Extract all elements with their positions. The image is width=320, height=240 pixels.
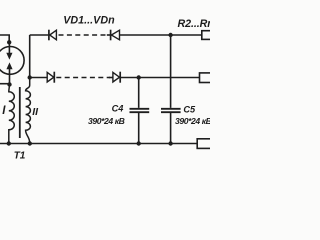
node winding I bottom (7, 141, 11, 145)
capacitor C4 leads (138, 78, 140, 144)
wire (107, 34, 111, 36)
wire input lower-left (0, 83, 10, 85)
resistor Rn (bottom, clipped) (197, 139, 211, 149)
svg-text:390*24 кВ: 390*24 кВ (175, 116, 210, 126)
arrow down (upper electrode) (8, 42, 10, 53)
node spark-gap top (7, 40, 11, 44)
transformer core (19, 87, 21, 138)
resistor R2 (top, clipped) (202, 31, 212, 40)
wire input top-left (0, 35, 9, 42)
diode VD2 (row2, anode left) (47, 72, 54, 82)
svg-text:R2...Rn: R2...Rn (178, 18, 211, 30)
arrow up (lower electrode) (9, 69, 11, 85)
wire dashed top row (59, 34, 108, 36)
svg-text:390*24 кВ: 390*24 кВ (88, 116, 125, 126)
node C5 bottom (168, 141, 172, 145)
wire bottom rail (0, 143, 197, 145)
wire top row left (30, 34, 49, 36)
spark gap arrester (circle) (0, 47, 24, 75)
capacitor C5 lead / resistor chain vertical (170, 35, 172, 144)
node winding II bottom (28, 141, 32, 145)
wire dashed row2 (56, 77, 110, 79)
wire top row right (119, 34, 201, 36)
node C4 bottom (137, 141, 141, 145)
transformer T1 winding II (26, 78, 31, 144)
svg-text:C4: C4 (112, 104, 124, 114)
svg-text:VD1...VDn: VD1...VDn (63, 15, 115, 27)
node top row / C5 branch (168, 33, 172, 37)
transformer T1 winding I (9, 85, 14, 144)
node spark-gap bottom / winding I top (7, 82, 11, 86)
resistor R3 (middle, clipped) (200, 73, 212, 83)
svg-text:C5: C5 (183, 105, 196, 115)
wire secondary riser (29, 35, 31, 78)
node C4 top (137, 75, 141, 79)
wire row2 left (30, 77, 48, 79)
svg-text:T1: T1 (14, 151, 26, 162)
wire (109, 77, 113, 79)
node row2 left (28, 75, 32, 79)
capacitor C5 plates (161, 109, 181, 112)
diode VDn-1 (top row, cathode left) (110, 30, 112, 41)
wire row2 right (120, 77, 199, 79)
diode VD1 (top row, cathode left) (48, 30, 50, 41)
capacitor C4 plates (130, 109, 150, 112)
diode VDn (row2, anode left) (113, 72, 120, 82)
